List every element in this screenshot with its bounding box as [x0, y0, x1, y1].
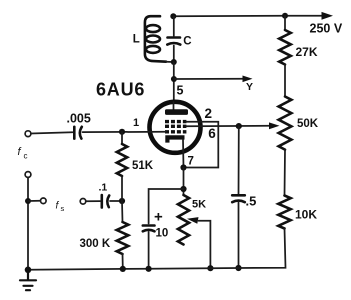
- wire: cathode lead to pin 7: [182, 140, 185, 168]
- svg-text:5K: 5K: [192, 199, 206, 211]
- svg-text:s: s: [61, 204, 65, 213]
- wire: tank bottom: [166, 61, 174, 63]
- svg-text:Y: Y: [246, 81, 253, 93]
- wire: .5 cap to rail: [238, 203, 240, 269]
- resistor 10K: [278, 196, 290, 229]
- wire: 5K wiper arm: [199, 221, 211, 269]
- potentiometer 50K: [279, 97, 292, 150]
- ground: [20, 270, 36, 290]
- terminal f_c top: [25, 131, 31, 137]
- node: wiper to rail: [207, 265, 213, 271]
- node: grid junction: [119, 129, 125, 135]
- arrow to 250V supply: [322, 12, 334, 20]
- node: 10uF to rail: [146, 266, 152, 272]
- svg-text:c: c: [24, 152, 28, 161]
- node: .5 to rail: [235, 265, 241, 271]
- svg-text:6AU6: 6AU6: [96, 80, 145, 100]
- wire: 27K to 50K: [284, 65, 286, 97]
- wire: plate lead down to tube pin 5: [173, 62, 175, 102]
- capacitor C: [167, 16, 180, 62]
- svg-text:2: 2: [205, 106, 213, 121]
- node: Y tap junction: [171, 76, 177, 82]
- wire: pin2 loop to cathode: [184, 122, 219, 168]
- wire: bottom ground rail: [28, 268, 239, 270]
- arrow Y: [243, 76, 253, 83]
- tube grid g1 row (pin 1): [165, 130, 186, 133]
- svg-text:1: 1: [133, 117, 139, 129]
- node: tank bottom junction: [171, 59, 177, 65]
- resistor 51K: [117, 144, 127, 176]
- svg-text:10: 10: [156, 228, 169, 240]
- capacitor .5: [232, 195, 245, 202]
- wire: Y output branch: [174, 78, 245, 80]
- resistor 300K: [117, 222, 129, 254]
- wire: pin6 screen to 50K wiper: [186, 125, 272, 127]
- node: junction 27K tap: [282, 13, 288, 19]
- svg-text:6: 6: [208, 126, 216, 141]
- svg-text:50K: 50K: [297, 118, 319, 130]
- svg-text:5: 5: [177, 84, 184, 98]
- wire: input f_c to grid pin 1: [31, 132, 73, 133]
- potentiometer 5K: [178, 195, 189, 245]
- tube cathode: [165, 135, 184, 142]
- resistor 27K: [279, 30, 291, 65]
- wire: left ground line down: [27, 177, 29, 269]
- svg-text:300 K: 300 K: [80, 238, 111, 250]
- arrow 5K wiper: [187, 217, 199, 224]
- wire: .5 cap branch down: [238, 126, 240, 194]
- wire: cap to grid junction to tube: [83, 131, 167, 133]
- wire: 50K to 10K: [284, 150, 287, 196]
- wire: branch to 10uF cap: [149, 189, 184, 224]
- wire: 10K to bottom rail corner: [239, 229, 286, 269]
- node: pin7 junction: [180, 164, 186, 170]
- tube grid g3 row (pin 2): [165, 120, 186, 123]
- wire: top B+ rail from tank to arrow: [173, 15, 285, 17]
- wire: .1 cap to junction: [110, 200, 122, 202]
- svg-text:.005: .005: [67, 111, 91, 125]
- inductor L: [145, 16, 166, 62]
- node: 51K/300K junction: [119, 198, 125, 204]
- tube U1 envelope: [150, 102, 201, 153]
- svg-text:C: C: [183, 35, 191, 47]
- svg-text:250 V: 250 V: [310, 22, 343, 36]
- terminal f_c bottom: [25, 172, 31, 178]
- wire: junction down to 300K: [121, 201, 124, 222]
- svg-text:+: +: [154, 209, 163, 226]
- node: f_s left junction: [25, 198, 31, 204]
- svg-text:27K: 27K: [296, 45, 318, 59]
- wire: 300K to bottom rail: [122, 254, 124, 269]
- terminal f_s right: [80, 199, 86, 205]
- node: cathode/10uF junction: [180, 186, 186, 192]
- capacitor .005: [74, 127, 82, 139]
- svg-text:.5: .5: [246, 194, 257, 209]
- node: .5 cap tap: [236, 123, 242, 129]
- capacitor 10uF electrolytic: [143, 226, 155, 269]
- svg-text:10K: 10K: [295, 207, 317, 221]
- wire: stub to f_s left terminal: [28, 200, 41, 202]
- wire: 51K to junction: [121, 176, 123, 201]
- svg-text:7: 7: [188, 156, 194, 168]
- wire: 27K top lead: [284, 16, 286, 30]
- terminal f_s left: [41, 198, 47, 204]
- wire: f_s terminal to .1 cap: [86, 200, 100, 202]
- tube grid g2 row (pin 6): [165, 125, 186, 128]
- wire: grid junction down to 51K: [121, 132, 123, 144]
- node: junction tank top: [170, 13, 176, 19]
- node: rail left end: [25, 267, 32, 274]
- capacitor .1: [102, 195, 109, 208]
- node: 300K to rail: [120, 266, 126, 272]
- arrow to 50K wiper: [269, 122, 280, 129]
- svg-text:.1: .1: [99, 182, 108, 194]
- wire: cathode down: [183, 168, 185, 196]
- tube plate (anode): [165, 102, 188, 115]
- svg-text:L: L: [133, 34, 140, 46]
- svg-text:51K: 51K: [132, 160, 154, 172]
